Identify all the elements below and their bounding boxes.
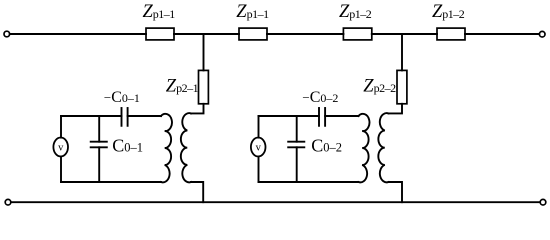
svg-text:Zp1–1: Zp1–1 — [143, 2, 176, 22]
wire top edge right part — [325, 115, 358, 117]
wire resonator 2 left edge upper — [258, 116, 260, 138]
capacitor C0-1 bottom wire — [98, 147, 100, 182]
resistor box Zp1-1 (second) — [239, 28, 267, 40]
resistor box Zp1-1 (first) — [146, 28, 174, 40]
terminal top-left — [4, 31, 10, 37]
svg-text:C0–1: C0–1 — [112, 136, 143, 156]
terminal bottom-right — [540, 199, 546, 205]
transformer T1 primary coil — [161, 114, 172, 182]
resonator 2 loop: top edge left part — [259, 115, 320, 117]
svg-text:v: v — [58, 143, 64, 154]
wire top rail segment 1 — [10, 33, 146, 35]
wire top rail segment 5 — [465, 33, 539, 35]
transformer T2 secondary coil — [378, 113, 388, 182]
wire resonator 2 left edge lower — [258, 157, 260, 183]
terminal bottom-left — [5, 199, 11, 205]
svg-text:Zp2–2: Zp2–2 — [363, 76, 396, 96]
wire top rail segment 2 — [174, 33, 239, 35]
impedance box Zp2-2 — [397, 70, 407, 103]
svg-text:Zp1–2: Zp1–2 — [339, 2, 372, 22]
wire top edge right part — [128, 115, 161, 117]
impedance box Zp2-1 — [199, 70, 209, 103]
svg-text:v: v — [256, 143, 262, 154]
transformer T2 primary coil — [359, 114, 370, 182]
capacitor C0-2 top wire — [296, 116, 298, 142]
wire top rail segment 4 — [372, 33, 437, 35]
resonator 1 loop: top edge left part — [61, 115, 122, 117]
wire resonator 1 left edge upper — [60, 116, 62, 138]
resistor box Zp1-2 (second) — [437, 28, 465, 40]
wire resonator 1 left edge lower — [60, 157, 62, 183]
wire resonator 1 bottom edge — [61, 181, 161, 183]
source V1 — [53, 138, 68, 157]
capacitor C0-2 plates — [288, 141, 304, 143]
capacitor -C0-1 plates — [121, 108, 123, 126]
capacitor -C0-2 plates — [318, 108, 320, 126]
wire T1 secondary bottom to ground rail — [191, 182, 203, 202]
wire junction drop to Zp2-2 — [401, 34, 403, 70]
wire bottom rail — [11, 201, 540, 203]
resistor box Zp1-2 (first) — [343, 28, 371, 40]
wire junction drop to Zp2-1 — [203, 34, 205, 70]
svg-text:Zp1–1: Zp1–1 — [236, 2, 269, 22]
svg-text:Zp1–2: Zp1–2 — [432, 2, 465, 22]
wire top rail segment 3 — [267, 33, 343, 35]
wire resonator 2 bottom edge — [259, 181, 359, 183]
svg-text:−C0–1: −C0–1 — [104, 89, 140, 106]
svg-text:Zp2–1: Zp2–1 — [166, 76, 199, 96]
wire Zp2-2 to transformer T2 secondary — [389, 104, 403, 114]
wire Zp2-1 to transformer T1 secondary — [191, 104, 204, 114]
capacitor C0-2 bottom wire — [296, 147, 298, 182]
wire T2 secondary bottom to ground rail — [389, 182, 403, 202]
svg-text:−C0–2: −C0–2 — [302, 89, 338, 106]
terminal top-right — [539, 31, 545, 37]
source V2 — [251, 138, 266, 157]
capacitor C0-1 plates — [91, 141, 107, 143]
svg-text:C0–2: C0–2 — [311, 136, 342, 156]
capacitor C0-1 top wire — [98, 116, 100, 142]
transformer T1 secondary coil — [181, 113, 191, 182]
